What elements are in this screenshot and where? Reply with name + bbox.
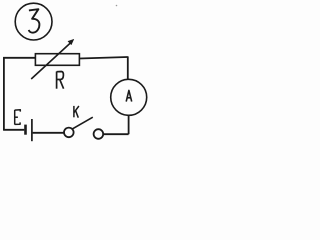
resistor arrowhead	[68, 39, 74, 45]
battery E short plate	[24, 125, 27, 135]
digit 3	[29, 9, 40, 32]
wire top-left horizontal	[3, 57, 35, 59]
wire bottom-left horizontal	[3, 129, 24, 131]
wire battery to switch	[33, 132, 64, 134]
resistor R1 box	[35, 54, 79, 66]
resistor arrow (variable)	[31, 42, 71, 79]
wire bottom-right horizontal	[103, 133, 128, 135]
label E	[15, 110, 21, 125]
scan speck	[116, 5, 118, 7]
battery E long plate	[31, 119, 33, 141]
ammeter U1 circle	[111, 79, 147, 115]
switch K lever	[72, 117, 92, 129]
label K	[74, 106, 79, 118]
wire left vertical	[3, 57, 5, 130]
label A	[126, 90, 132, 101]
figure number circle 3	[15, 3, 52, 40]
label R	[57, 72, 64, 89]
switch K right contact	[94, 129, 104, 139]
wire top-right horizontal	[79, 57, 127, 59]
switch K left contact	[64, 128, 74, 138]
wire right vertical upper	[127, 56, 129, 79]
wire right vertical lower	[128, 115, 130, 134]
